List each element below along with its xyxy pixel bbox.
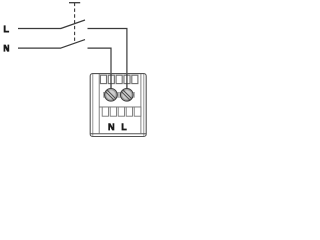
housing middle shelf line (99, 106, 141, 108)
housing right seam (140, 74, 142, 134)
terminal entry slot 1 (top row) (100, 75, 106, 83)
vent slot 4 (middle row) (126, 107, 132, 116)
terminal entry slot 4 (top row, L wire) (124, 75, 130, 83)
wire L drop over slot (126, 74, 128, 90)
housing left seam (98, 74, 100, 134)
node L label (4, 25, 9, 32)
screw terminal L cage tabs (119, 92, 121, 97)
wire N drop over slot (110, 74, 112, 90)
wire L out to terminal (88, 29, 127, 91)
switch S1 pole 2 arm (61, 40, 85, 49)
switch S1 mechanical link (dashed) (74, 3, 76, 43)
wire N in (18, 47, 61, 49)
wire N out to terminal (88, 48, 112, 90)
vent slot 2 (middle row) (110, 107, 116, 116)
wire L in (18, 28, 61, 30)
screw L head (120, 88, 134, 102)
terminal block housing outline (90, 74, 146, 137)
housing inner left edge line (92, 74, 94, 136)
terminal label N (108, 123, 114, 130)
switch S1 actuator T-bar (69, 2, 80, 4)
terminal label L (122, 123, 127, 130)
switch S1 pole 1 arm (61, 20, 85, 29)
vent slot 3 (middle row) (118, 107, 124, 116)
terminal entry slot 2 (top row, N wire) (108, 75, 114, 83)
screw N head (104, 88, 118, 102)
housing inner right edge line (143, 74, 145, 136)
node N label (4, 45, 10, 52)
vent slot 1 (middle row) (102, 107, 108, 116)
terminal entry slot 5 (top row) (132, 75, 138, 83)
screw terminal N cage tabs (103, 92, 105, 97)
vent slot 5 partial (middle row) (134, 107, 141, 116)
housing inner bottom line (90, 133, 146, 135)
terminal entry slot 3 (top row) (116, 75, 122, 83)
